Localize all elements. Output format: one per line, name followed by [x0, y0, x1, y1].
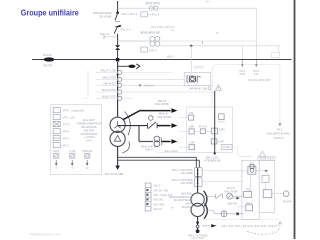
legend box 6: [53, 143, 60, 148]
svg-text:MALI MTBF: MALI MTBF: [158, 115, 172, 119]
tap B wire at y41: [118, 40, 151, 42]
T2 wire down: [197, 217, 199, 231]
feeder arrow down x242: [241, 60, 243, 65]
svg-text:AM-MA MY 199: AM-MA MY 199: [189, 87, 207, 90]
svg-text:TM MV9: TM MV9: [282, 200, 292, 203]
svg-text:MAL - 9 MAL 9 M: MAL - 9 MAL 9 M: [154, 194, 172, 197]
bushing box: [194, 168, 202, 177]
svg-text:C2R: C2R: [189, 112, 194, 115]
CT right leads: [122, 72, 173, 74]
svg-text:DE GROUPE: DE GROUPE: [81, 125, 97, 129]
feeder arrow down x256: [255, 60, 257, 65]
frame border bar right: [294, 0, 296, 239]
svg-text:9 MV: 9 MV: [240, 73, 246, 76]
node dot: [117, 74, 119, 76]
node dot T2: [196, 221, 199, 224]
node on tap B: [190, 45, 192, 47]
aux icon box: [248, 166, 256, 174]
aux warning triangle: [259, 151, 266, 157]
bushing right leads: [202, 170, 248, 172]
svg-text:MAL 9: MAL 9: [167, 56, 174, 59]
earthing switch branch: [104, 36, 117, 38]
svg-text:TM MV 9: TM MV 9: [274, 137, 284, 140]
svg-text:MAL 9: MAL 9: [150, 50, 158, 53]
svg-text:MALI MTBF: MALI MTBF: [155, 102, 169, 106]
svg-text:MAL 9 M: MAL 9 M: [100, 33, 109, 36]
aux panel B left: [242, 160, 259, 219]
aux small box mid: [262, 176, 269, 183]
tap B wire continuation upper: [160, 40, 256, 42]
svg-text:MALI MTBF: MALI MTBF: [224, 190, 238, 193]
transformer T1 secondary: [110, 131, 125, 146]
svg-text:AT-DET: AT-DET: [223, 146, 232, 149]
svg-text:MAL9: MAL9: [246, 202, 253, 205]
wire through bushing: [197, 168, 199, 193]
aux box row1: [244, 192, 252, 198]
wave trap bowtie on line: [115, 45, 120, 47]
legend arrow MAP9: [55, 160, 57, 163]
svg-text:9P/9 9P/9 9P: 9P/9 9P/9 9P: [141, 31, 161, 35]
svg-text:APL 9: APL 9: [63, 145, 70, 148]
svg-text:990 MVA: 990 MVA: [84, 128, 95, 132]
svg-text:Groupe unifilaire: Groupe unifilaire: [21, 7, 79, 17]
relay row connectors: [194, 130, 200, 132]
earth terminal blob: [196, 229, 200, 233]
svg-text:D9MAL99: D9MAL99: [82, 150, 93, 153]
terminal strip ladder: [145, 183, 151, 211]
aux box row2: [246, 205, 253, 211]
T1 LV wire down: [117, 146, 119, 166]
aux wire down: [249, 174, 251, 191]
isolator ring: [196, 225, 199, 228]
svg-text:MALI 99: MALI 99: [227, 202, 237, 205]
VT cluster on tap B: [150, 36, 155, 41]
disconnector DS2 blade: [114, 27, 117, 34]
svg-text:MAL 9: MAL 9: [154, 185, 161, 188]
relay row box 1: [189, 129, 194, 134]
svg-text:MAL 900...: MAL 900...: [50, 233, 63, 237]
svg-text:MALM 9791: MALM 9791: [102, 88, 117, 92]
relay wide label box: [221, 145, 232, 150]
relay box tap B: [141, 47, 148, 52]
svg-text:TR9: TR9: [246, 190, 251, 192]
node top junction: [116, 12, 119, 15]
group panel bottom edge: [232, 147, 252, 156]
svg-text:MAL 990: MAL 990: [154, 199, 164, 202]
tick x204: [201, 41, 203, 44]
dashed arrow right of T2 bottom: [203, 225, 211, 227]
T1 star winding: [114, 121, 120, 128]
relay box tap A: [141, 12, 148, 17]
T2 arc lower: [204, 204, 207, 219]
svg-text:(MAL-MENT-9A-MAL): (MAL-MENT-9A-MAL): [267, 132, 291, 135]
svg-text:MAL 99: MAL 99: [154, 208, 163, 211]
T2 HV aux circuit right: [204, 195, 215, 197]
svg-text:A-M MAL 9000 (MV): A-M MAL 9000 (MV): [248, 79, 271, 82]
breaker contact bar: [114, 25, 121, 27]
legend box 4: [53, 129, 60, 134]
svg-text:MAL 9 MAL 990 (MV): MAL 9 MAL 990 (MV): [151, 26, 175, 29]
relay input stubs: [179, 117, 189, 119]
svg-text:SE-PR9: SE-PR9: [43, 64, 53, 68]
legend arrow D9MAL99: [86, 160, 88, 163]
CT pair on tap A: [149, 6, 153, 10]
svg-text:MALI B: MALI B: [159, 112, 168, 116]
transformer T2 secondary: [191, 203, 204, 216]
svg-text:A2R9: A2R9: [219, 129, 226, 132]
wire below DS2: [117, 34, 119, 46]
svg-text:C9R: C9R: [189, 126, 194, 129]
relay row box 3: [212, 128, 218, 134]
svg-text:MAL 9: MAL 9: [152, 14, 160, 17]
svg-text:9P/9 9P/9: 9P/9 9P/9: [146, 2, 161, 6]
legend box 3: [53, 122, 60, 127]
terminal strip marks: [146, 189, 148, 191]
svg-text:C4R: C4R: [189, 142, 194, 145]
arrow feeder 2 with breaker: [118, 125, 148, 127]
svg-text:MAL 9–9: MAL 9–9: [121, 29, 132, 32]
wire to busbar: [117, 50, 119, 59]
supervision box: [184, 72, 210, 85]
bushing beads: [197, 170, 199, 172]
tick mark x205 top: [205, 0, 210, 2]
svg-text:©PMC9DK-900: ©PMC9DK-900: [30, 233, 50, 237]
relay transformer box: [219, 114, 224, 120]
svg-text:MAL90: MAL90: [43, 53, 52, 57]
arrow feeder 1 diagonal: [123, 111, 171, 120]
legend panel: [51, 105, 102, 175]
feeder drop wire: [138, 126, 140, 142]
small box right top: [272, 52, 280, 57]
svg-text:MAL 9A0T: MAL 9A0T: [83, 118, 96, 122]
svg-text:TRANSFORMATEUR: TRANSFORMATEUR: [76, 122, 101, 126]
relay box B5: [211, 139, 217, 144]
svg-text:APTN: APTN: [63, 131, 70, 134]
main wire below bus: [117, 62, 119, 118]
relay feed wire vertical: [214, 91, 216, 153]
svg-text:ALPH: ALPH: [218, 141, 225, 144]
aux box right: [263, 190, 272, 198]
svg-text:MALW 9797: MALW 9797: [102, 94, 117, 98]
svg-text:APTI - unfk: APTI - unfk: [63, 117, 76, 120]
svg-text:MAL 9–MAL 9: MAL 9–MAL 9: [122, 13, 138, 16]
svg-text:MTB 9999 199: MTB 9999 199: [204, 160, 221, 163]
arrester arrow branch right: [118, 65, 128, 67]
svg-text:◄: ◄: [171, 206, 173, 209]
T1 OLTC arc right upper: [125, 112, 131, 136]
coupling lens symbol on busbar: [44, 57, 55, 61]
legend box 5: [53, 136, 60, 141]
dashes to meter circle: [272, 193, 283, 195]
CT string circles: [118, 70, 122, 74]
node bus junction square: [116, 58, 119, 61]
supervision icon: [187, 76, 188, 83]
svg-text:TR 9: TR 9: [249, 163, 255, 165]
svg-text:MA 90/95: MA 90/95: [182, 206, 193, 209]
svg-text:A-MALIA: A-MALIA: [144, 84, 155, 88]
breaker tick upper: [115, 21, 120, 23]
svg-text:(SOUSTA9): (SOUSTA9): [191, 237, 204, 239]
wire drop x278 into box: [277, 46, 279, 53]
svg-text:DE LIGNE: DE LIGNE: [99, 14, 111, 18]
T1 delta winding: [114, 135, 121, 141]
TR feeder arrow down: [278, 123, 281, 126]
diamond marker on lead: [138, 84, 141, 87]
svg-text:MAL 99 - MAL: MAL 99 - MAL: [154, 189, 170, 192]
svg-text:MAL9: MAL9: [218, 121, 225, 124]
T1 OLTC arc right lower: [122, 142, 129, 153]
arrow feeder 3 with transformer: [139, 141, 153, 143]
svg-text:TLM9: TLM9: [69, 151, 76, 153]
wire drop x242: [241, 46, 243, 59]
transformer T1 primary: [110, 117, 125, 132]
svg-text:APT 9: APT 9: [63, 138, 70, 141]
legend box 1: [53, 108, 60, 113]
svg-text:APTI 9: APTI 9: [63, 124, 71, 127]
svg-text:MAL 9: MAL 9: [145, 148, 153, 152]
relay box B1: [189, 115, 194, 120]
incoming line wire: [117, 1, 119, 12]
svg-text:SOUS-TAB 9: SOUS-TAB 9: [259, 158, 274, 161]
legend arrow TLM9: [71, 160, 73, 163]
svg-text:9 M: 9 M: [254, 73, 258, 76]
relay panel frame: [187, 107, 233, 152]
aux row2 lead: [237, 206, 246, 208]
legend box 2: [53, 115, 60, 120]
relay row box 2: [200, 129, 205, 134]
small circle left of triangle: [208, 87, 211, 90]
highlight band: [194, 66, 204, 69]
svg-text:MALI-P 1.5W: MALI-P 1.5W: [101, 69, 117, 73]
svg-text:MAL MTBF: MAL MTBF: [180, 172, 193, 175]
curved dashed arc: [247, 223, 280, 234]
relay box B6: [189, 145, 195, 150]
svg-text:AT-AT-2: AT-AT-2: [199, 126, 208, 129]
svg-text:MA 9000/9500: MA 9000/9500: [81, 132, 98, 136]
svg-text:9: 9: [56, 168, 58, 170]
CT left leads: [96, 72, 117, 74]
disconnector DS1 blade: [115, 13, 117, 20]
main busbar: [32, 59, 292, 61]
aux entry arrow: [232, 197, 237, 199]
svg-text:4: 4: [72, 168, 74, 170]
tap B wire lower: [160, 45, 280, 47]
svg-text:MALM 912: MALM 912: [103, 81, 116, 85]
T2 LV aux circuit right: [204, 211, 244, 214]
group panel top-left corner: [212, 65, 280, 124]
wire above arc: [203, 219, 281, 221]
svg-text:49: 49: [86, 168, 89, 170]
svg-text:MALI B: MALI B: [158, 99, 167, 103]
transformer T2 primary: [191, 193, 204, 206]
CT labels bracket: [84, 70, 88, 98]
svg-text:9.9 A: 9.9 A: [86, 139, 92, 143]
tap A wire at y8: [118, 7, 257, 9]
svg-text:+/- 8 MV4: +/- 8 MV4: [83, 135, 95, 139]
svg-text:TR 9: TR 9: [277, 129, 283, 132]
svg-text:APTD - Uniquement: APTD - Uniquement: [63, 110, 85, 113]
LV terminal arrow: [115, 166, 120, 170]
wire from node down to relay box: [190, 46, 192, 73]
svg-text:MALV 9729: MALV 9729: [103, 75, 117, 79]
svg-text:b: b: [217, 31, 219, 35]
svg-text:MAP9: MAP9: [53, 150, 60, 153]
svg-text:MAL 990 (MV) 9A MAL-990 MAL 99: MAL 990 (MV) 9A MAL-990 MAL 999 M: [222, 225, 277, 228]
svg-text:MAL PLUS 19B: MAL PLUS 19B: [105, 172, 123, 176]
isophase duct double line: [118, 156, 197, 158]
aux panel title box: [258, 156, 275, 160]
warning triangle: [215, 85, 221, 90]
meter circle: [283, 191, 289, 197]
T2 arc upper: [204, 191, 207, 206]
aux panel A right: [259, 160, 275, 212]
wire drop x256: [255, 8, 257, 59]
svg-text:MAL MTBF: MAL MTBF: [180, 182, 193, 185]
tick mark x172: [171, 29, 175, 31]
svg-text:MAL 9909: MAL 9909: [154, 203, 165, 206]
